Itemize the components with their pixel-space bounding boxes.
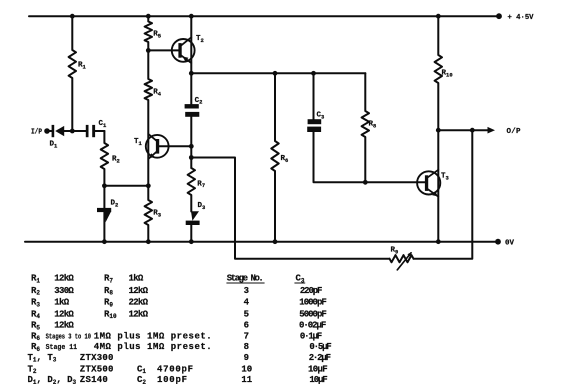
svg-text:4MΩ plus 1MΩ preset.: 4MΩ plus 1MΩ preset. — [94, 342, 212, 352]
svg-text:Stage 11: Stage 11 — [46, 344, 78, 352]
svg-text:O/P: O/P — [507, 128, 521, 136]
svg-text:R7: R7 — [197, 180, 205, 189]
svg-text:T1: T1 — [134, 138, 143, 147]
svg-text:R8: R8 — [369, 121, 378, 130]
svg-text:1kΩ: 1kΩ — [54, 298, 69, 308]
svg-text:R10: R10 — [442, 70, 453, 79]
svg-text:100pF: 100pF — [157, 375, 187, 384]
svg-text:10µF: 10µF — [309, 375, 327, 384]
svg-text:12kΩ: 12kΩ — [54, 274, 74, 284]
svg-text:0·5µF: 0·5µF — [309, 342, 331, 352]
svg-text:12kΩ: 12kΩ — [129, 309, 149, 319]
svg-text:10µF: 10µF — [308, 364, 328, 374]
svg-text:T1, T3: T1, T3 — [28, 353, 57, 364]
svg-text:11: 11 — [241, 375, 252, 384]
svg-text:T2: T2 — [196, 35, 204, 44]
svg-text:5: 5 — [244, 309, 249, 319]
svg-text:9: 9 — [244, 353, 249, 363]
svg-text:0V: 0V — [505, 239, 515, 247]
svg-text:C2: C2 — [195, 97, 203, 106]
svg-text:330Ω: 330Ω — [54, 286, 74, 296]
svg-text:5000pF: 5000pF — [299, 309, 327, 319]
svg-text:R4: R4 — [153, 89, 162, 98]
svg-text:22kΩ: 22kΩ — [129, 298, 149, 308]
svg-text:12kΩ: 12kΩ — [129, 286, 149, 296]
svg-text:4: 4 — [244, 298, 250, 308]
svg-text:D3: D3 — [198, 202, 207, 211]
svg-text:ZS140: ZS140 — [80, 375, 108, 384]
svg-text:Stage No.: Stage No. — [227, 274, 264, 284]
svg-text:Stages 3 to 10: Stages 3 to 10 — [46, 333, 91, 341]
svg-text:R2: R2 — [112, 156, 120, 165]
svg-text:8: 8 — [244, 342, 249, 352]
svg-text:+ 4·5V: + 4·5V — [508, 14, 534, 22]
svg-text:D2: D2 — [111, 200, 119, 209]
svg-text:1000pF: 1000pF — [299, 298, 327, 308]
svg-text:C3: C3 — [317, 112, 326, 121]
svg-text:1kΩ: 1kΩ — [129, 274, 144, 284]
svg-text:6: 6 — [244, 321, 249, 331]
svg-text:R6: R6 — [281, 155, 289, 164]
svg-text:ZTX500: ZTX500 — [80, 364, 114, 374]
svg-text:0·1µF: 0·1µF — [300, 331, 322, 341]
svg-text:12kΩ: 12kΩ — [54, 309, 74, 319]
svg-text:12kΩ: 12kΩ — [54, 321, 74, 331]
svg-text:R5: R5 — [153, 31, 162, 40]
svg-text:T3: T3 — [441, 173, 450, 182]
svg-text:R3: R3 — [153, 210, 162, 219]
svg-text:R1: R1 — [78, 62, 87, 71]
svg-text:0·02µF: 0·02µF — [299, 321, 326, 331]
svg-text:7: 7 — [244, 331, 249, 341]
svg-text:220pF: 220pF — [300, 286, 323, 296]
svg-text:10: 10 — [241, 364, 252, 374]
svg-text:2·2µF: 2·2µF — [309, 353, 331, 363]
svg-text:3: 3 — [244, 286, 249, 296]
svg-text:C1: C1 — [99, 120, 108, 129]
svg-text:I/P: I/P — [31, 129, 42, 137]
svg-text:ZTX300: ZTX300 — [80, 353, 114, 363]
svg-text:4700pF: 4700pF — [157, 364, 193, 374]
svg-text:D1: D1 — [50, 141, 59, 150]
svg-text:1MΩ plus 1MΩ preset.: 1MΩ plus 1MΩ preset. — [94, 331, 212, 341]
svg-text:R9: R9 — [391, 247, 399, 256]
